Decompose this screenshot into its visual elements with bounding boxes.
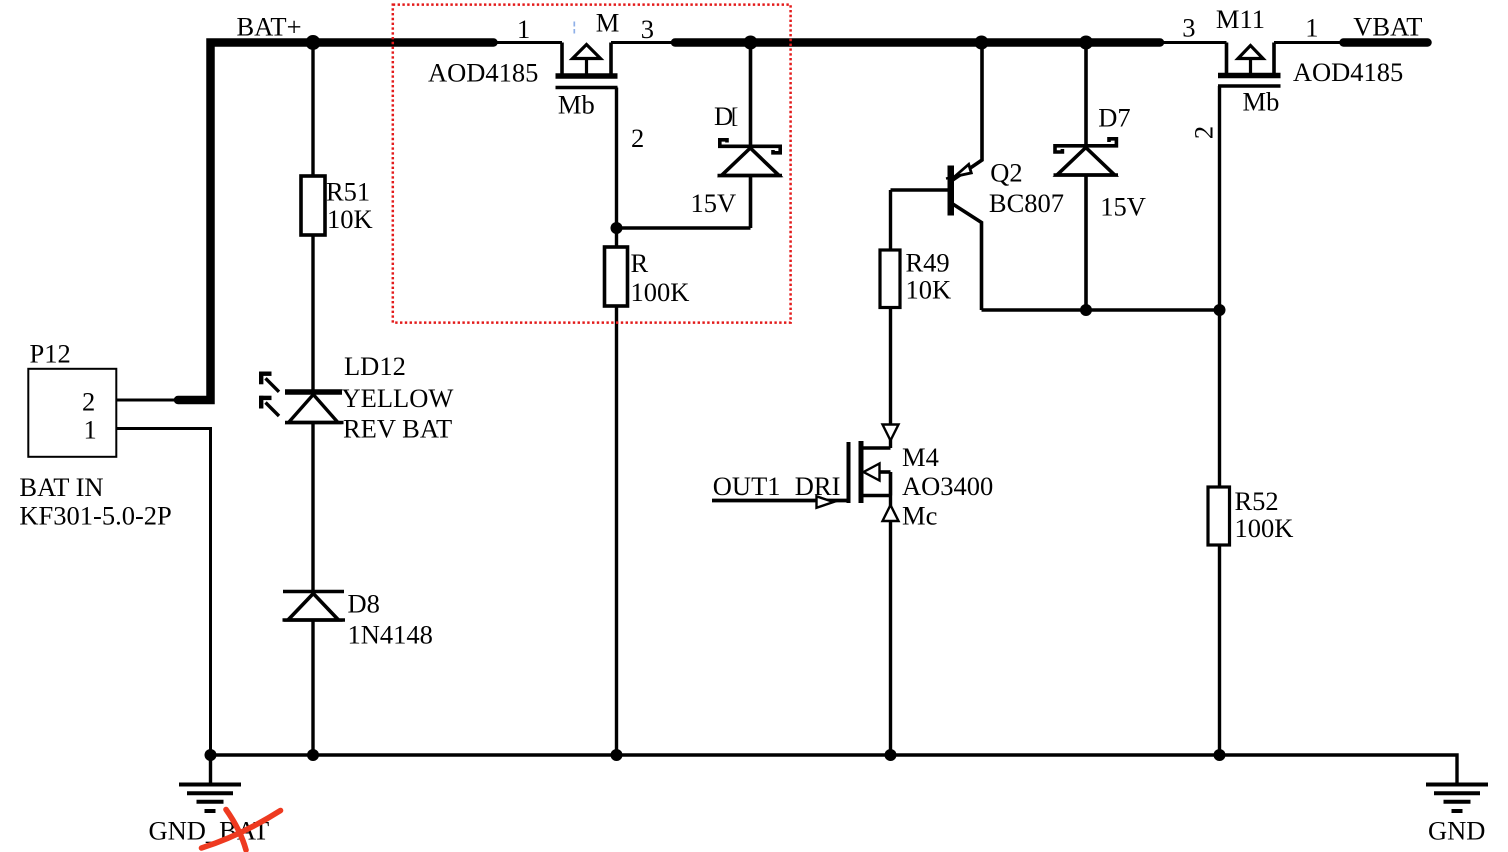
- transistor M AOD4185: [556, 43, 618, 88]
- junction gnd M4: [885, 749, 897, 761]
- svg-text:D8: D8: [348, 589, 380, 619]
- label LD12: [342, 351, 454, 444]
- connector P12 box: [28, 369, 116, 457]
- svg-text:Mb: Mb: [1243, 87, 1280, 117]
- wire M pin3 rail segment: [611, 41, 678, 44]
- svg-text:2: 2: [631, 123, 644, 153]
- wire VBAT thick stub: [1344, 38, 1428, 47]
- wire P12 pin 2 lead: [117, 399, 181, 402]
- svg-text:10K: 10K: [327, 204, 373, 234]
- label D: [714, 101, 738, 131]
- transistor M4 AO3400: [849, 441, 891, 503]
- junction gnd P12: [205, 749, 217, 761]
- label P12: [30, 339, 71, 369]
- junction gnd R52: [1214, 749, 1226, 761]
- resistor R: [605, 247, 628, 306]
- label R52 value: [1235, 486, 1294, 543]
- label D7 15V: [1100, 191, 1146, 221]
- label M AOD4185: [428, 58, 538, 88]
- svg-text:LD12: LD12: [344, 351, 406, 381]
- highlight box (red dotted): [393, 5, 791, 323]
- wire BAT+ to D7 cathode: [1084, 43, 1088, 146]
- svg-text:R: R: [631, 248, 649, 278]
- label D8: [348, 589, 433, 650]
- ground rail: [211, 755, 1458, 785]
- svg-text:3: 3: [641, 14, 654, 44]
- wire node to R: [615, 228, 618, 248]
- wire LD12 to D8: [311, 423, 314, 593]
- wire BAT+ to D cathode: [749, 43, 753, 147]
- wire to left ground: [209, 755, 212, 785]
- wire BAT+ to R51: [311, 43, 314, 178]
- wire Q2 collector to M11 gate node: [982, 308, 1220, 311]
- junction gnd R: [611, 749, 623, 761]
- wire M11 gate down: [1218, 86, 1221, 488]
- wire R51 to LD12: [311, 235, 314, 393]
- svg-text:M11: M11: [1216, 4, 1265, 34]
- svg-text:1: 1: [517, 14, 530, 44]
- junction gnd D8: [307, 749, 319, 761]
- svg-text:KF301-5.0-2P: KF301-5.0-2P: [19, 501, 171, 531]
- transistor Q2 BC807: [891, 43, 983, 311]
- wire Q2 base to R49: [889, 190, 892, 251]
- label M11 pin 1: [1305, 13, 1318, 43]
- label R49 value: [906, 248, 952, 305]
- label GND: [1428, 816, 1485, 846]
- junction BAT+ D7: [1079, 36, 1093, 50]
- label M11 pin 2 (rotated): [1189, 126, 1219, 139]
- wire M pin1 rail segment: [490, 41, 562, 44]
- wire BAT+ thick feed from P12 pin 2: [178, 43, 494, 401]
- svg-text:Q2: Q2: [990, 158, 1022, 188]
- label M pin 1: [517, 14, 530, 44]
- svg-text:10K: 10K: [906, 275, 952, 305]
- label M11: [1216, 4, 1265, 34]
- resistor R49: [880, 250, 900, 308]
- svg-text:AO3400: AO3400: [902, 471, 993, 501]
- svg-text:1: 1: [1305, 13, 1318, 43]
- svg-text:BAT+: BAT+: [237, 12, 302, 42]
- signal arrow into gate: [817, 496, 834, 508]
- label OUT1_DRI: [713, 471, 841, 501]
- label D 15V: [691, 188, 737, 218]
- svg-text:15V: 15V: [691, 188, 737, 218]
- drain arrow M4: [883, 425, 899, 441]
- svg-text:P12: P12: [30, 339, 71, 369]
- zener diode D7: [1054, 139, 1119, 175]
- label M11 AOD4185: [1293, 57, 1403, 87]
- svg-text:1N4148: 1N4148: [348, 620, 433, 650]
- label GND_BAT: [149, 816, 270, 846]
- svg-text:15V: 15V: [1100, 191, 1146, 221]
- svg-text:BAT IN: BAT IN: [19, 472, 103, 502]
- svg-text:Mc: Mc: [902, 501, 937, 531]
- wire D anode down: [749, 176, 753, 229]
- label P12 pin 1: [84, 415, 97, 445]
- label VBAT: [1353, 12, 1422, 42]
- wire R52 to ground rail: [1218, 545, 1221, 755]
- wire M4 source to ground rail: [889, 496, 892, 756]
- svg-text:AOD4185: AOD4185: [1293, 57, 1403, 87]
- junction BAT+ D: [744, 36, 758, 50]
- label M: [596, 8, 620, 38]
- label BAT+: [237, 12, 302, 42]
- wire OUT1_DRI gate lead: [712, 499, 849, 503]
- svg-text:3: 3: [1182, 13, 1195, 43]
- wire node to D anode: [617, 226, 751, 229]
- junction BAT+ R51: [306, 35, 321, 50]
- wire R to ground rail: [615, 306, 618, 755]
- diode D8: [283, 592, 346, 621]
- svg-text:OUT1: OUT1: [713, 471, 781, 501]
- svg-text:100K: 100K: [1235, 513, 1294, 543]
- junction M11 gate mid: [1214, 304, 1226, 316]
- ground GND symbol: [1426, 785, 1488, 812]
- svg-text:YELLOW: YELLOW: [342, 383, 454, 413]
- svg-text:DRI: DRI: [795, 471, 841, 501]
- wire BAT+ thick rail middle: [675, 38, 1160, 47]
- svg-text:M4: M4: [902, 442, 939, 472]
- svg-text:R52: R52: [1235, 486, 1279, 516]
- resistor R52: [1208, 487, 1230, 545]
- wire R49 to M4 drain: [889, 308, 892, 449]
- ground GND_BAT symbol: [179, 785, 241, 812]
- svg-text:R49: R49: [906, 248, 950, 278]
- LED LD12: [259, 372, 343, 423]
- svg-text:D7: D7: [1098, 103, 1130, 133]
- label M pin 3: [641, 14, 654, 44]
- label R value: [631, 248, 690, 307]
- junction node R-D: [611, 222, 623, 234]
- wire M11 pin3 rail segment: [1158, 41, 1227, 44]
- junction BAT+ Q2: [975, 36, 989, 50]
- artifact mark: [573, 22, 575, 34]
- svg-text:GND: GND: [1428, 816, 1485, 846]
- wire M11 pin1 rail segment: [1274, 41, 1345, 44]
- label D7: [1098, 103, 1130, 133]
- wire D7 anode to mid: [1084, 175, 1088, 310]
- label R51 value: [326, 177, 373, 235]
- wire P12 pin 1 lead: [117, 429, 211, 756]
- wire M gate down to node: [615, 88, 618, 229]
- svg-text:100K: 100K: [631, 277, 690, 307]
- svg-text:VBAT: VBAT: [1353, 12, 1422, 42]
- label P12 pin 2: [82, 387, 95, 417]
- resistor R51: [301, 176, 325, 235]
- svg-text:2: 2: [82, 387, 95, 417]
- label M pin 2: [631, 123, 644, 153]
- svg-text:[: [: [731, 103, 738, 128]
- label M Mb: [558, 90, 595, 120]
- wire D8 to ground rail: [311, 620, 314, 755]
- label M11 Mb: [1243, 87, 1280, 117]
- svg-text:REV BAT: REV BAT: [343, 414, 452, 444]
- svg-text:2: 2: [1189, 126, 1219, 139]
- label BAT IN: [19, 472, 103, 502]
- label M11 pin 3: [1182, 13, 1195, 43]
- label M4: [902, 442, 993, 531]
- zener diode D: [718, 140, 783, 176]
- red cross-out X: [202, 810, 281, 851]
- svg-text:BC807: BC807: [989, 188, 1064, 218]
- source arrow M4: [883, 505, 899, 521]
- label Q2: [989, 158, 1064, 219]
- svg-text:M: M: [596, 8, 620, 38]
- svg-text:1: 1: [84, 415, 97, 445]
- svg-text:Mb: Mb: [558, 90, 595, 120]
- transistor M11 AOD4185: [1218, 43, 1281, 87]
- junction D7 mid: [1080, 304, 1092, 316]
- svg-text:AOD4185: AOD4185: [428, 58, 538, 88]
- svg-text:R51: R51: [326, 177, 370, 207]
- label KF301-5.0-2P: [19, 501, 171, 531]
